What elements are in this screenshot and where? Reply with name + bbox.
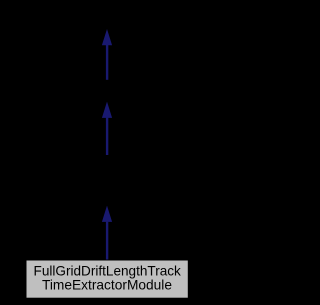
inheritance arrow 1 (topmost) [102,29,112,80]
svg-text:TimeExtractorModule: TimeExtractorModule [42,278,172,293]
inheritance arrow 3 (bottom, into node box) [102,206,112,261]
node box FullGridDriftLengthTrackTimeExtractorModule [26,260,188,298]
svg-text:FullGridDriftLengthTrack: FullGridDriftLengthTrack [34,264,181,279]
inheritance arrow 2 (middle) [102,102,112,155]
